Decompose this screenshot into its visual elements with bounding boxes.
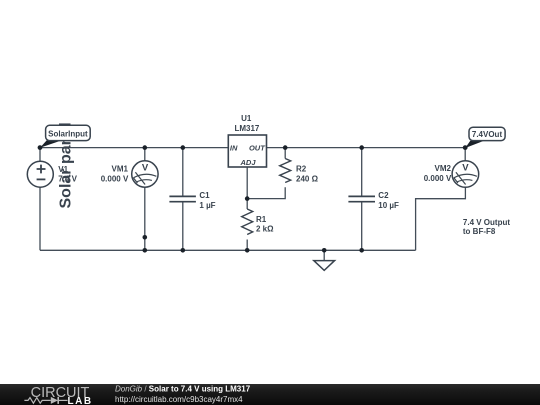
svg-text:1 µF: 1 µF [199, 201, 215, 210]
wire R2 leads [247, 148, 285, 199]
node VM1 bottom terminal [143, 235, 148, 240]
node 7.4VOut [463, 145, 468, 150]
svg-text:V: V [142, 162, 149, 173]
svg-text:LM317: LM317 [234, 124, 259, 133]
svg-text:R2: R2 [296, 164, 307, 173]
svg-text:V: V [462, 162, 469, 173]
svg-text:to BF-F8: to BF-F8 [463, 227, 496, 236]
wire C2 leads [361, 148, 363, 251]
capacitor C1 plates [169, 196, 196, 201]
node C1 top [181, 145, 186, 150]
wire ground stem [323, 250, 325, 260]
svg-text:240 Ω: 240 Ω [296, 174, 319, 183]
node ground [322, 248, 327, 253]
node C2 top [359, 145, 364, 150]
op-amp U1 LM317 box [228, 135, 266, 167]
VM2 meter face [454, 172, 477, 184]
svg-text:7.4VOut: 7.4VOut [472, 130, 503, 139]
V1 plus sign [37, 165, 46, 174]
wire VM1 leads [144, 148, 146, 251]
resistor R2 zigzag [280, 159, 291, 183]
wire VM2 branch [416, 148, 466, 251]
flag 7.4VOut pointer [465, 141, 484, 148]
svg-text:C1: C1 [199, 191, 210, 200]
node VM1 top [143, 145, 148, 150]
logo resistor+diode icon [24, 397, 67, 404]
svg-text:LAB: LAB [68, 396, 93, 405]
svg-text:OUT: OUT [249, 143, 266, 152]
footer bar [0, 384, 540, 405]
svg-text:VM2: VM2 [435, 164, 452, 173]
svg-text:ADJ: ADJ [239, 158, 256, 167]
svg-text:10 µF: 10 µF [378, 201, 399, 210]
svg-text:http://circuitlab.com/c9b3cay4: http://circuitlab.com/c9b3cay4r7mx4 [115, 395, 243, 404]
svg-text:SolarInput: SolarInput [48, 129, 88, 138]
svg-text:0.000 V: 0.000 V [424, 174, 452, 183]
node C1 bottom [181, 248, 186, 253]
voltage source V1 (Solar panel) [27, 161, 53, 187]
node VM1 bottom rail [143, 248, 148, 253]
resistor R1 zigzag [242, 209, 253, 235]
voltmeter VM2 body [452, 161, 479, 188]
svg-text:R1: R1 [256, 215, 267, 224]
ground symbol triangle [314, 261, 335, 271]
junction dots [38, 145, 468, 252]
flag SolarInput [46, 125, 91, 140]
wire ADJ to R1 [246, 167, 248, 250]
svg-text:DonGib / Solar to 7.4 V using: DonGib / Solar to 7.4 V using LM317 [115, 385, 251, 394]
node R1 bottom [245, 248, 250, 253]
wire C1 leads [182, 148, 184, 251]
svg-text:U1: U1 [241, 114, 252, 123]
svg-text:0.000 V: 0.000 V [101, 174, 129, 183]
capacitor C2 plates [348, 196, 375, 201]
node SolarInput [38, 145, 43, 150]
flag 7.4VOut [469, 127, 505, 140]
V1 minus sign [37, 178, 46, 180]
svg-text:VM1: VM1 [112, 164, 129, 173]
svg-text:2 kΩ: 2 kΩ [256, 225, 274, 234]
node OUT/R2 [283, 145, 288, 150]
node ADJ junction [245, 196, 250, 201]
svg-text:C2: C2 [378, 191, 389, 200]
flag SolarInput pointer [40, 140, 62, 148]
svg-text:V1: V1 [58, 165, 68, 174]
svg-text:IN: IN [230, 143, 238, 152]
wire left vertical (V1 branch) [39, 148, 41, 251]
node C2 bottom [359, 248, 364, 253]
wire top rail [40, 147, 465, 149]
wire bottom rail [40, 249, 416, 251]
voltmeter VM1 body [132, 161, 158, 187]
VM1 meter face [133, 172, 156, 184]
svg-text:7.4 V Output: 7.4 V Output [463, 218, 510, 227]
svg-text:7.4 V: 7.4 V [58, 174, 77, 183]
